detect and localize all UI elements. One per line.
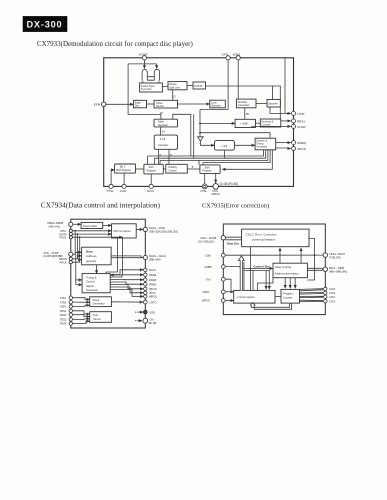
wire clock vertical (199, 110, 201, 137)
wire C2PO bus to Base Address (73, 252, 82, 254)
wire TES3 to Test (73, 315, 90, 317)
svg-text:(D)~(D8),(D1): (D)~(D8),(D1) (199, 239, 215, 243)
svg-text:Tri0: Tri0 (206, 277, 211, 281)
wire Base Address down to Timing (96, 265, 98, 274)
wire Timing to RAC1 (110, 270, 143, 275)
svg-text:FREN: FREN (149, 282, 156, 286)
svg-text:RRS1: RRS1 (297, 119, 305, 123)
pin RRS1 (292, 119, 306, 123)
svg-text:C1/C2 Error Correction: C1/C2 Error Correction (246, 233, 278, 237)
block Shift Register right (200, 165, 220, 174)
pin WFCK (292, 147, 306, 151)
wire micro to Program Counter verticals (284, 278, 286, 289)
wire Program Counter to C1F1 (300, 289, 324, 291)
svg-text:Generator: Generator (256, 146, 267, 149)
svg-text:Generator: Generator (238, 103, 250, 107)
svg-text:XRAE: XRAE (149, 273, 157, 277)
pin C1F2 (324, 291, 336, 295)
block Sampler (267, 100, 280, 108)
wire bus arrow into Shift Register right (222, 150, 272, 170)
pin MD bus (323, 266, 347, 273)
wire branch vertical PSSL to Base (79, 237, 81, 262)
wire Sampler bottom to LTOP line (270, 107, 285, 113)
svg-text:26: 26 (160, 111, 164, 115)
block divider 4-3 (215, 141, 235, 151)
svg-text:Det.: Det. (135, 104, 140, 108)
wire EFM to Edge Det (106, 103, 134, 105)
pin C2PO bus (44, 251, 73, 258)
svg-text:VCKI: VCKI (120, 189, 127, 193)
block Base Address (82, 247, 112, 265)
wire WFCK to microprogram (225, 300, 234, 302)
wire arrows into microprogram top (265, 271, 267, 289)
wires CX7935 (225, 237, 323, 309)
svg-text:pointer generation: pointer generation (252, 238, 276, 242)
svg-text:Detector: Detector (211, 104, 221, 108)
wire Decoder drop 1 (157, 149, 159, 164)
wire Bit1 to Shift Register (136, 168, 144, 170)
wire pin SCLK up (150, 174, 152, 184)
wires CX7934 (73, 224, 144, 323)
pin WFCK out (144, 287, 158, 291)
wire Control Bus double to Data Pointer (240, 267, 273, 269)
svg-text:Program: Program (283, 292, 294, 296)
svg-text:Sampler: Sampler (268, 101, 278, 105)
wire Main Register to Decoder (160, 127, 162, 135)
svg-text:C2P1: C2P1 (60, 305, 67, 309)
svg-text:XTAL: XTAL (200, 189, 207, 193)
svg-text:FREn: FREn (203, 290, 210, 294)
svg-text:WDS: WDS (233, 53, 240, 57)
buffer triangle U (clock buffer) (197, 137, 204, 141)
node clock junction (199, 132, 201, 134)
wire Window Gen to Sampler (256, 103, 267, 105)
block Interpolator (81, 222, 103, 228)
block Main Register (154, 119, 178, 127)
block Program Counter (281, 289, 300, 303)
wire Detector Counter to RRS1 (281, 120, 291, 122)
svg-text:Circuit: Circuit (93, 317, 101, 321)
wire divider 588 to XLSW (252, 126, 291, 127)
svg-text:14-8: 14-8 (160, 137, 166, 141)
wire bus step 3 (160, 150, 268, 165)
DX-300 model label box (23, 16, 68, 32)
svg-text:RAC1: RAC1 (149, 268, 157, 272)
block Sync Detector (140, 80, 163, 92)
pin TES4 (60, 322, 73, 326)
svg-text:Data Bus: Data Bus (227, 242, 240, 246)
svg-text:XTA0: XTA0 (60, 300, 67, 304)
svg-text:Sync Det.: Sync Det. (141, 87, 153, 91)
svg-text:Strobe: Strobe (156, 104, 164, 108)
svg-text:(B),(B): (B),(B) (149, 321, 157, 325)
block 14-8 Decoder (154, 135, 177, 149)
svg-text:Signal: Signal (86, 284, 94, 288)
block crystal 8.6436 (193, 82, 206, 89)
svg-text:8: 8 (192, 165, 194, 169)
wire Sync Det to Phase (162, 86, 168, 88)
svg-text:SCOR: SCOR (139, 53, 149, 57)
pin TES bus (323, 252, 345, 259)
pin RA bus out (143, 254, 166, 261)
wire into Counter Timing left (234, 144, 255, 146)
svg-text:Interpolator: Interpolator (83, 224, 97, 228)
wire branch vertical RNTS to Base (76, 234, 78, 259)
svg-text:Counter: Counter (283, 295, 293, 299)
wire MS bottom to Timing top (106, 238, 118, 274)
IC outline CX7933 (104, 58, 294, 187)
pin ATCK (144, 291, 157, 295)
svg-text:Phase: Phase (169, 82, 177, 86)
svg-text:Address generation: Address generation (275, 272, 300, 276)
block Clock Generator (90, 297, 112, 307)
pin DA bus in (199, 236, 226, 244)
block Timing Control Signal Generator (82, 274, 110, 293)
wire branch vertical ATM to Base (74, 231, 76, 255)
wire buffer out to divider 4-3 (200, 141, 214, 145)
svg-text:56: 56 (246, 112, 250, 116)
svg-text:(T28),(T8): (T28),(T8) (329, 255, 341, 259)
wire TES1 to Test (73, 311, 90, 314)
svg-text:Test: Test (93, 313, 98, 317)
svg-text:C2fb: C2fb (205, 253, 211, 257)
svg-text:÷ 588: ÷ 588 (240, 122, 248, 126)
svg-text:RA01 ~ RA11: RA01 ~ RA11 (149, 254, 166, 258)
pin SCOR (139, 53, 149, 60)
wire GND tick (138, 320, 143, 322)
wire Base Address to RA pin double (111, 256, 143, 258)
wire bus vertical B (193, 114, 195, 158)
svg-text:13: 13 (173, 94, 177, 98)
svg-text:(D8)~(D8),(D8),(D8),(D2): (D8)~(D8),(D8),(D8),(D2) (149, 229, 178, 233)
svg-text:WREQ: WREQ (297, 141, 307, 145)
block Clock Strobe (154, 100, 178, 108)
wire RNTS to MS (73, 233, 112, 235)
wire Counter Timing to WREQ (276, 142, 291, 144)
wire Data Bus double (226, 237, 242, 240)
svg-text:DRA8: DRA8 (149, 278, 157, 282)
IC outline CX7935 (223, 224, 325, 315)
pin GND (143, 317, 157, 325)
svg-text:TES3: TES3 (60, 313, 67, 317)
pin C2F1 (324, 295, 336, 299)
wire WDCK to Base Address (73, 256, 82, 259)
wire 8.6436 across to Detector Counter (206, 86, 281, 119)
wires CX7933 (106, 58, 291, 185)
pin DA bus out (143, 226, 178, 233)
wire Program Counter to C2F1 (300, 296, 324, 297)
svg-text:generator: generator (86, 260, 96, 263)
svg-text:SCLK: SCLK (147, 189, 154, 193)
block Data Pointer Address generation (273, 263, 307, 278)
pin GFS (222, 53, 231, 60)
pin WDCK (59, 257, 72, 261)
block Detector and Counter (260, 119, 281, 127)
pin C2F2 (324, 299, 336, 303)
svg-text:WFCK: WFCK (202, 299, 210, 303)
svg-text:Register: Register (158, 123, 168, 127)
svg-text:LTOP: LTOP (297, 112, 305, 116)
pin VCKI bottom (120, 184, 127, 193)
block Counter and Timing Generator (255, 138, 276, 150)
svg-text:TES2: TES2 (60, 318, 67, 322)
wire Timing to ATCK (110, 287, 143, 293)
wire Clock Strobe to Lock Detector (178, 103, 210, 105)
svg-text:GFS: GFS (222, 53, 228, 57)
block Window Generator (236, 99, 256, 108)
wire drop to Sampler top (272, 86, 274, 100)
wire bus step 1 (148, 150, 264, 165)
pin XLSW (292, 124, 306, 128)
wire micro to program counter link (275, 296, 281, 298)
hollow arrow C2fb to microprogram (238, 256, 244, 291)
wire Shift Register to Polarity (163, 168, 166, 170)
wire clock to Counter Timing (200, 133, 270, 139)
svg-text:Decoder: Decoder (159, 143, 169, 147)
svg-text:Register: Register (147, 169, 156, 172)
svg-text:24: 24 (162, 129, 166, 133)
svg-text:CX7933(Demodulation circuit fo: CX7933(Demodulation circuit for compact … (37, 41, 193, 48)
svg-text:C2F1: C2F1 (329, 295, 336, 299)
svg-text:Split Gen.: Split Gen. (169, 85, 181, 89)
pin RNTS (60, 232, 73, 236)
wire Program Counter to C2F2 (300, 300, 324, 301)
svg-text:VDD: VDD (150, 310, 156, 314)
wire Data Pointer up arrow 1 (279, 248, 281, 263)
svg-text:Q=45 (R=45): Q=45 (R=45) (220, 182, 239, 186)
arch symbol B (154, 69, 159, 80)
svg-text:(48)~(41): (48)~(41) (49, 224, 61, 228)
wire SCOR loop top (128, 64, 161, 119)
svg-text:ATCK: ATCK (149, 291, 156, 295)
pin TES3 (60, 313, 73, 317)
svg-text:TES4: TES4 (60, 322, 67, 326)
pin C2P1 (60, 305, 73, 309)
wire Tri0 down to microprogram (225, 279, 231, 290)
wire APCK to Base Address (73, 260, 82, 263)
IC outline CX7934 (71, 219, 146, 328)
wire Data Pointer up arrow 2 (300, 248, 302, 263)
pin DRA8 (144, 278, 157, 282)
svg-text:C2F2: C2F2 (329, 299, 336, 303)
pin C2fb (205, 253, 225, 257)
pin FREN (144, 282, 157, 286)
wire to divider 588 input (200, 122, 235, 124)
wire Data Pointer to MD pin double (307, 268, 323, 270)
arch link wires (147, 77, 154, 81)
svg-text:TES1: TES1 (60, 309, 67, 313)
wire Window Gen to divider 588 (244, 108, 246, 120)
wire SCOR stub (143, 60, 145, 69)
svg-text:C1F2: C1F2 (329, 291, 336, 295)
wire feedback loop inner (254, 303, 291, 309)
pin DB bus (48, 221, 73, 228)
wire Polarity to Shift Register right (187, 168, 200, 170)
wire WDS to Window Generator (237, 60, 239, 99)
pin XRAE (144, 273, 157, 277)
svg-text:Data Pointer: Data Pointer (275, 265, 291, 269)
pin XTA0 (60, 300, 73, 304)
wire Phase to Clock Strobe (172, 90, 174, 101)
pin VDD (143, 310, 155, 314)
svg-text:XLSW: XLSW (297, 125, 306, 129)
wire top edge down to LTOP (284, 58, 286, 111)
wire TES4 to Test (73, 321, 90, 323)
svg-text:C1F1: C1F1 (329, 287, 336, 291)
svg-text:XTSL: XTSL (107, 189, 114, 193)
wire C1C2 right to junction (307, 239, 314, 281)
pin C1F1 (324, 287, 336, 291)
wire Timing to XRAE (110, 275, 143, 277)
svg-text:TES1~TES4: TES1~TES4 (329, 252, 345, 256)
svg-text:MS Converter: MS Converter (114, 229, 131, 233)
svg-text:Base: Base (86, 250, 93, 254)
svg-text:LRTO: LRTO (150, 300, 157, 304)
svg-text:8.6436: 8.6436 (194, 84, 203, 88)
svg-text:(R8)~(R8): (R8)~(R8) (149, 258, 161, 262)
wire vertical right trunk to Timing (110, 237, 122, 275)
wire XTA1 to Clock Gen (73, 298, 90, 300)
block Test Circuit (90, 312, 112, 323)
wire C2fb across to TES pin (225, 254, 323, 256)
pin PSSL (60, 236, 73, 240)
block Edge Det (134, 100, 147, 108)
wire bus vertical A (173, 114, 191, 156)
pin FREn (203, 290, 226, 294)
wire divider 588 to Detector Counter (256, 122, 261, 124)
pin APCK (60, 260, 73, 264)
block Phase Comparator (168, 82, 187, 90)
sync window flip-flop symbols (two arches) (128, 60, 161, 119)
pin WFCK in (202, 299, 225, 303)
svg-text:Frame Sync: Frame Sync (141, 84, 156, 88)
block Polarity Control (166, 164, 188, 173)
svg-text:Control: Control (169, 169, 178, 172)
svg-text:WDCK: WDCK (59, 257, 67, 261)
svg-text:DX-300: DX-300 (27, 20, 63, 30)
svg-text:WFCK: WFCK (297, 147, 306, 151)
wire C1C2 bottom to micro vertical (243, 262, 245, 290)
label Control Bus (254, 265, 271, 269)
svg-text:Window: Window (238, 100, 247, 104)
svg-text:Shift Register: Shift Register (116, 169, 131, 172)
svg-text:~DRA4: ~DRA4 (211, 192, 221, 196)
wire GFS down (200, 60, 228, 110)
wire Phase to 8.6436 (187, 85, 193, 87)
pin TES2 (60, 318, 73, 322)
wire control verticals to microprogram (251, 247, 254, 291)
svg-text:Register: Register (203, 170, 212, 173)
wire ATM to MS (73, 230, 112, 232)
svg-text:PSSL: PSSL (60, 236, 67, 240)
wire TES2 to Test (73, 318, 90, 321)
svg-text:Clock: Clock (93, 298, 100, 302)
pin XTSL bottom (107, 184, 114, 193)
wire Interpolator to MS Converter (103, 224, 112, 226)
wire pin VCKI up (123, 173, 125, 184)
svg-text:XTA1: XTA1 (60, 296, 67, 300)
wire DB pin to Interpolator (73, 223, 81, 225)
node divider tap (199, 123, 201, 125)
block MS Converter (112, 224, 137, 238)
wire C2P1 to Clock Gen (73, 305, 90, 306)
svg-text:CX7934(Data control and interp: CX7934(Data control and interpolation) (41, 200, 161, 209)
pin WREQ (292, 141, 307, 145)
wire data pointer left drop to micro (258, 278, 274, 291)
wire divider43 stub (224, 150, 226, 158)
block Shift Register left (144, 164, 163, 174)
block C1C2 Error Correction pointer generation (242, 229, 309, 247)
wire Program Counter to C1F2 (300, 292, 324, 294)
wire pin XTAL up (204, 173, 206, 184)
wire bus step 2 (155, 150, 266, 165)
block microprogram (234, 290, 275, 303)
wire pin XTAI up (215, 173, 217, 183)
pin ATM (60, 229, 72, 233)
svg-text:÷ 4/3: ÷ 4/3 (221, 144, 228, 148)
block Bit-1 Shift Register (115, 164, 136, 173)
svg-text:EFM: EFM (94, 103, 101, 107)
wire Counter Timing to WFCK (276, 147, 291, 150)
pin HDB8 (205, 265, 226, 269)
block Lock Detector (210, 100, 226, 108)
svg-text:microprogram: microprogram (238, 295, 256, 299)
pin RAC1 (144, 268, 157, 272)
svg-text:Generator: Generator (86, 288, 98, 292)
svg-text:Address: Address (86, 254, 97, 258)
svg-text:Timing &: Timing & (86, 275, 97, 279)
svg-text:GN: GN (150, 317, 154, 321)
wire Timing to WRQ (110, 290, 143, 297)
wire Decoder drop 2 (168, 149, 170, 164)
wire pin XTSL up into Bit1 (111, 170, 115, 184)
feedback arrowhead open (250, 303, 255, 306)
wire Timing to DRA8 (110, 279, 143, 281)
arch symbol A (142, 69, 147, 80)
pin LRCK (143, 300, 156, 304)
wire Clock Gen to LRTO pin (111, 301, 143, 303)
svg-text:(M8)~(M8),(M1): (M8)~(M8),(M1) (329, 270, 347, 274)
svg-text:DA0 ~ DA08: DA0 ~ DA08 (201, 236, 217, 240)
block divider 588 (235, 119, 255, 127)
pin EFM (94, 102, 106, 107)
wire Timing to FREN (110, 282, 143, 284)
pin LTOP (292, 111, 305, 115)
pin XTA1 (60, 296, 73, 300)
wire FREn to microprogram (225, 291, 234, 293)
wire Edge Det to Clock Strobe (147, 103, 155, 105)
wire MS to DA pin (136, 228, 143, 230)
wire left trunk to Timing inputs (75, 254, 77, 284)
svg-text:WFCK: WFCK (149, 287, 157, 291)
wire VDD tick (138, 311, 144, 313)
wire XTA0 to Clock Gen (73, 301, 90, 303)
wire HDB8 to Control Bus (225, 267, 240, 269)
pin WRQ (144, 295, 158, 299)
wire feedback loop outer (251, 303, 289, 307)
wire PSSL long to vertical (73, 236, 123, 238)
svg-text:WRQ1: WRQ1 (149, 295, 158, 299)
svg-text:MD1 ~ MD8: MD1 ~ MD8 (329, 266, 344, 270)
wire bus step 4 (203, 150, 270, 165)
wire Timing to WFCK (110, 285, 143, 289)
svg-text:Control: Control (86, 280, 95, 284)
pin XTAL bottom (double circle) (200, 184, 207, 193)
svg-text:DA01 ~ DA8: DA01 ~ DA8 (149, 226, 165, 230)
pin Tri0 (206, 277, 225, 281)
svg-text:CX7935(Error correction): CX7935(Error correction) (202, 202, 269, 209)
svg-text:Generator: Generator (93, 302, 105, 306)
